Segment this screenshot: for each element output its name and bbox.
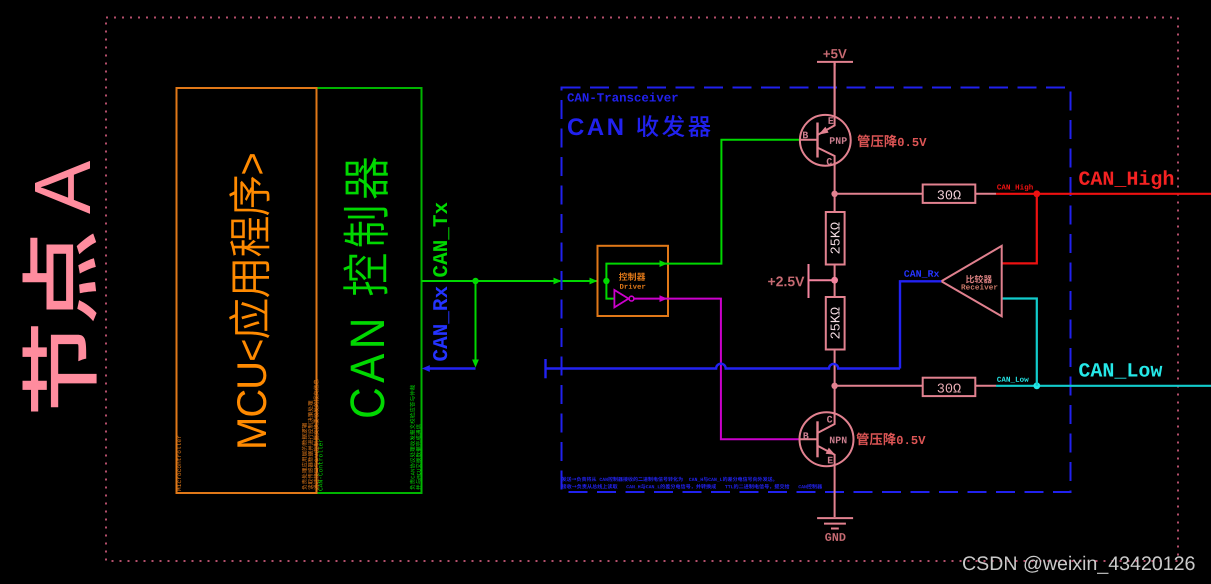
ground	[817, 518, 853, 528]
wire CAN_Low bus	[996, 385, 1211, 387]
node driver input	[603, 278, 609, 284]
label CAN_High (big)	[1079, 170, 1173, 189]
wire CAN_Tx branch down	[475, 281, 477, 362]
wire driver to Q1 base (green)	[668, 140, 800, 264]
resistor R3 30Ω	[923, 185, 976, 203]
net label CAN_Tx	[433, 202, 449, 276]
note column orange 2	[308, 401, 313, 490]
wire CAN_High bus	[996, 193, 1211, 195]
wire driver to Q2 base (magenta)	[668, 299, 800, 440]
wire R4 to CAN_Low node	[975, 385, 996, 387]
label GND	[825, 533, 845, 541]
label Microcontroller	[177, 436, 182, 491]
wire CAN_Low to comparator	[1002, 299, 1037, 386]
inverter in driver U1	[614, 290, 628, 307]
arrow at driver input	[590, 278, 598, 285]
pin label B (Q1)	[803, 132, 808, 139]
terminal CAN_Rx T-bar	[544, 359, 546, 378]
value 25KΩ (R2)	[831, 307, 840, 338]
value 30Ω (R3)	[938, 190, 961, 199]
MCU application block	[177, 88, 317, 493]
wire CAN_High to comparator	[1002, 194, 1037, 264]
value 30Ω (R4)	[938, 384, 961, 393]
pin label E (Q1)	[829, 117, 834, 124]
label CAN 控制器	[343, 157, 388, 416]
wire comparator output blue	[900, 281, 941, 368]
node CAN_Low bus junction	[1033, 382, 1040, 389]
label +2.5V	[768, 276, 804, 286]
pin label B (Q2)	[804, 432, 809, 439]
node A title (节点 A)	[23, 161, 97, 412]
label 管压降0.5V (Q1)	[857, 135, 926, 148]
label CAN 收发器	[568, 115, 711, 137]
note column green 1	[410, 385, 415, 490]
wire driver internal green	[606, 264, 668, 299]
comparator U2 比较器 Receiver	[941, 246, 1001, 316]
label CAN-Controller	[318, 440, 323, 491]
wire Q1 collector to CAN_High node	[834, 163, 836, 194]
label 比较器	[966, 275, 992, 283]
wire R1 to midpoint node	[834, 265, 836, 298]
label MCU<应用程序>	[229, 154, 270, 447]
watermark CSDN @weixin_43420126	[963, 556, 1195, 574]
pin label C (Q2)	[827, 416, 832, 423]
label 控制器 (driver)	[619, 272, 645, 280]
wire trunk node to R4	[835, 385, 923, 387]
node CAN_High trunk junction	[831, 191, 837, 197]
wire R3 to CAN_High node	[975, 193, 996, 195]
wire +5V to Q1 emitter	[834, 63, 836, 116]
CAN transceiver boundary box	[562, 88, 1071, 493]
pin label E (Q2)	[828, 457, 833, 464]
power +2.5V terminal	[809, 264, 832, 298]
transistor Q2 NPN	[800, 412, 854, 517]
label CAN-Transceiver	[568, 93, 678, 102]
node +2.5V junction	[831, 277, 838, 284]
label PNP	[830, 137, 847, 144]
wire CAN_Tx controller to driver	[422, 280, 598, 282]
arrow driver rx out	[660, 295, 668, 302]
note column green 2	[416, 424, 421, 490]
resistor R1 25KΩ	[826, 212, 845, 265]
net label CAN_Rx (comparator out)	[904, 270, 939, 278]
node CAN_Tx junction	[472, 278, 478, 284]
wire node to R1	[834, 194, 836, 212]
note column orange 3	[313, 379, 318, 489]
net label CAN_High (small)	[997, 184, 1033, 191]
note 接收 line 2	[562, 484, 823, 489]
transistor Q1 PNP	[800, 63, 851, 166]
label Driver	[620, 284, 645, 289]
label NPN	[830, 437, 847, 444]
wire R2 to CAN_Low node	[834, 350, 836, 387]
pin label C (Q1)	[827, 158, 832, 165]
net label CAN_Rx	[433, 286, 449, 360]
value 25KΩ (R1)	[831, 222, 840, 253]
arrow on CAN_Tx wire	[554, 278, 562, 285]
label CAN_Low (big)	[1079, 363, 1162, 379]
arrow down at Rx return	[472, 360, 479, 368]
net label CAN_Low (small)	[997, 377, 1029, 383]
arrow Q1 emitter (PNP into base)	[819, 127, 829, 135]
label Receiver	[962, 284, 998, 290]
wire trunk node to R3	[835, 193, 923, 195]
node CAN_Low trunk junction	[831, 383, 837, 389]
resistor R4 30Ω	[923, 378, 976, 396]
arrow Q2 emitter (NPN out)	[826, 448, 836, 455]
resistor R2 25KΩ	[826, 297, 845, 350]
CAN controller block	[317, 88, 422, 493]
arrow into controller	[422, 365, 430, 372]
wire CAN_Rx return with hops	[546, 364, 901, 369]
driver block U1 控制器 Driver	[598, 246, 669, 316]
note 发送 line 1	[562, 477, 775, 482]
label 管压降0.5V (Q2)	[856, 433, 925, 446]
wire node to Q2 collector	[834, 386, 836, 415]
power +5V	[823, 49, 846, 58]
wire CAN_Rx into controller	[426, 367, 476, 369]
arrow driver tx out	[660, 260, 668, 267]
note column orange 1	[302, 423, 307, 490]
node CAN_High bus junction	[1033, 190, 1040, 197]
wire driver rx internal magenta	[634, 298, 668, 300]
